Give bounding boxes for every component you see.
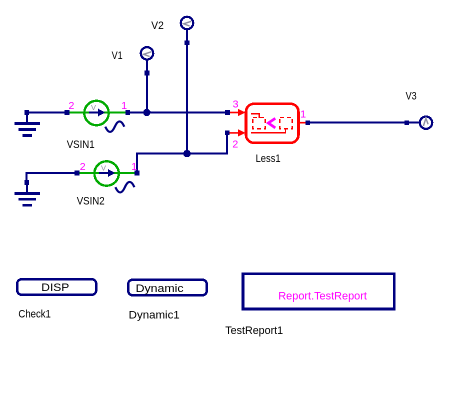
svg-text:V2: V2 bbox=[151, 20, 164, 32]
svg-text:2: 2 bbox=[232, 138, 238, 150]
icon: input step line bbox=[251, 114, 259, 118]
controller block Dynamic1 bbox=[128, 280, 207, 322]
svg-text:DISP: DISP bbox=[41, 282, 69, 294]
junction node at V1 tap bbox=[143, 109, 150, 116]
svg-text:2: 2 bbox=[80, 161, 86, 173]
svg-text:TestReport1: TestReport1 bbox=[225, 325, 283, 337]
svg-text:1: 1 bbox=[300, 108, 306, 120]
icon: right dashed token box bbox=[280, 118, 292, 129]
ground GND2 bbox=[15, 180, 40, 207]
svg-text:Less1: Less1 bbox=[256, 153, 281, 165]
svg-text:Check1: Check1 bbox=[18, 308, 51, 320]
svg-text:1: 1 bbox=[131, 161, 137, 173]
node V3 bbox=[404, 91, 432, 129]
junction node at V2 tap bbox=[183, 150, 190, 157]
wire lower net: VSIN2 pin1 riser bbox=[137, 133, 227, 173]
voltage source VSIN1 bbox=[65, 100, 130, 151]
wire VSIN1 pin1 to Less1 pin3 bbox=[128, 112, 228, 114]
wire ground1 to VSIN1 pin2 bbox=[26, 112, 67, 114]
svg-text:3: 3 bbox=[233, 99, 239, 111]
svg-text:VSIN1: VSIN1 bbox=[67, 139, 95, 151]
ground GND1 bbox=[15, 110, 40, 137]
pin 1 output stub bbox=[299, 122, 307, 124]
svg-text:VSIN2: VSIN2 bbox=[77, 195, 105, 207]
svg-text:2: 2 bbox=[69, 100, 75, 112]
node V1 bbox=[112, 47, 154, 112]
node V2 bbox=[151, 17, 193, 154]
svg-text:Dynamic: Dynamic bbox=[136, 283, 185, 295]
wire Less1 pin1 to V3 bbox=[308, 122, 420, 124]
voltage source VSIN2 bbox=[75, 161, 140, 208]
svg-text:V1: V1 bbox=[112, 50, 123, 62]
svg-text:V: V bbox=[91, 103, 96, 112]
icon: output step line bbox=[251, 129, 286, 133]
svg-text:V: V bbox=[101, 164, 106, 173]
comparator block Less1 bbox=[225, 99, 310, 165]
pin 2 input arrow bbox=[229, 132, 240, 134]
svg-text:V3: V3 bbox=[406, 91, 417, 103]
icon: less-than symbol bbox=[268, 118, 275, 128]
wire ground2 to VSIN2 pin2 bbox=[27, 173, 77, 182]
svg-text:Dynamic1: Dynamic1 bbox=[129, 310, 180, 322]
icon: left dashed token box bbox=[253, 118, 265, 129]
sink block Check1 (DISP) bbox=[17, 279, 96, 320]
report block TestReport1 bbox=[225, 274, 394, 337]
pin 3 input arrow bbox=[228, 112, 240, 114]
svg-text:Report.TestReport: Report.TestReport bbox=[278, 290, 367, 302]
svg-text:1: 1 bbox=[121, 100, 127, 112]
